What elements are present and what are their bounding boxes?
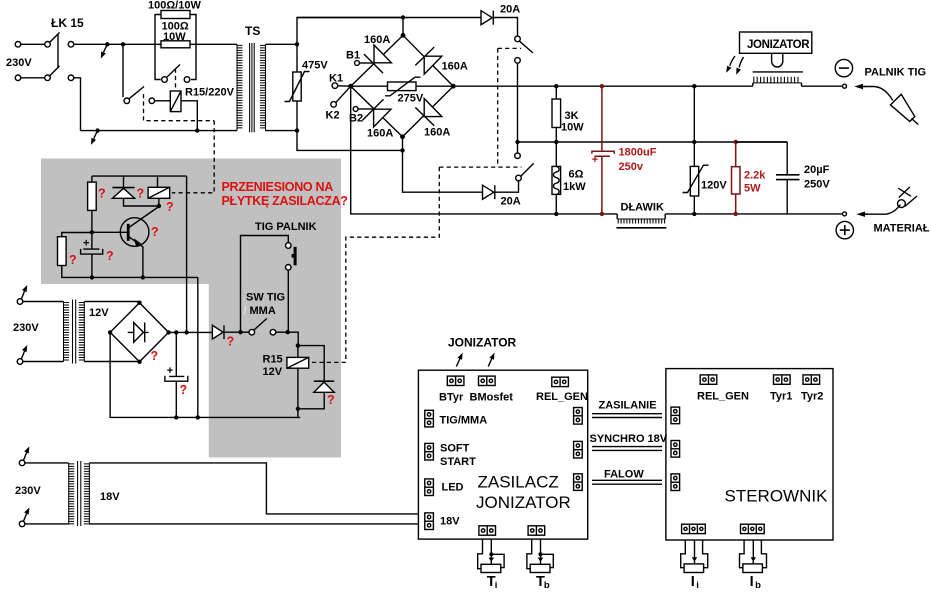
svg-text:160A: 160A — [364, 34, 390, 46]
resistor 100R 10W (in line) — [161, 21, 190, 48]
wire: driver ground rail down to 12V minus — [197, 277, 199, 417]
junction: mid rail / 3K-6R — [554, 140, 558, 144]
diode 160A top-right — [415, 47, 442, 74]
svg-text:SOFT: SOFT — [440, 443, 470, 455]
svg-text:1800uF: 1800uF — [619, 147, 657, 159]
svg-text:?: ? — [180, 383, 188, 397]
inductor DLAWIK (in plus bus) — [616, 202, 666, 228]
svg-text:R15/220V: R15/220V — [185, 87, 235, 99]
capacitor (base filter, electrolytic) — [81, 232, 114, 277]
svg-text:+: + — [167, 365, 173, 377]
svg-text:230V: 230V — [13, 322, 39, 334]
transformer TS secondary winding — [260, 44, 266, 130]
wire segment: resistor right node to TS primary — [190, 43, 237, 45]
svg-text:i: i — [495, 580, 498, 591]
svg-text:SYNCHRO 18V: SYNCHRO 18V — [590, 433, 668, 445]
dashed link: aux switch to relay driver coil — [144, 94, 215, 193]
junction: driver supply tap — [184, 330, 188, 334]
wires: secondary to bridge — [84, 302, 139, 362]
connector BMosfet — [479, 376, 496, 385]
transistor (relay driver) — [92, 207, 159, 278]
terminal: torch output — [843, 84, 847, 88]
svg-text:MMA: MMA — [250, 305, 276, 317]
switch LK15 pole 1 — [45, 33, 74, 48]
svg-text:/: / — [244, 305, 247, 317]
STEROWNIK board outline — [666, 369, 833, 540]
label PRZENIESIONO (red note) — [222, 180, 348, 208]
svg-text:5W: 5W — [744, 183, 761, 195]
node: mains L terminal 3 — [19, 446, 29, 465]
junction: base node — [90, 230, 94, 234]
wire: AC bottom feed (secondary bottom to bridge bottom) — [297, 131, 403, 151]
wire: driver plus rail down to 12V plus — [186, 176, 188, 332]
dashed link: relay R15/12V to 20A switches — [309, 48, 522, 362]
gray area: circuitry moved to power board (upper) — [41, 159, 341, 285]
svg-text:10W: 10W — [561, 122, 584, 134]
svg-text:R15: R15 — [263, 354, 283, 366]
pushbutton TIG PALNIK (parallel) — [241, 221, 317, 332]
junction on top wire — [105, 42, 109, 46]
svg-text:18V: 18V — [440, 516, 460, 528]
svg-text:2.2k: 2.2k — [744, 170, 766, 182]
svg-text:b: b — [544, 580, 550, 591]
junction: switch right node — [286, 330, 290, 334]
svg-text:20A: 20A — [501, 196, 521, 208]
svg-text:I: I — [750, 574, 754, 590]
connector ZASILANIE in — [671, 407, 680, 424]
svg-text:ZASILANIE: ZASILANIE — [599, 400, 657, 412]
svg-text:SW TIG: SW TIG — [246, 292, 285, 304]
connector FALOW in — [671, 474, 680, 491]
svg-text:160A: 160A — [424, 127, 450, 139]
current transformer Ib — [740, 540, 767, 591]
svg-text:START: START — [440, 456, 476, 468]
connector Ii — [682, 524, 706, 533]
svg-text:TS: TS — [245, 24, 260, 38]
wire: N side down to bottom bus — [74, 78, 81, 131]
svg-text:?: ? — [227, 335, 235, 349]
battery/cap 12V — [165, 332, 188, 417]
driver supply rail — [92, 175, 187, 177]
bridge node bottom (AC) — [400, 134, 405, 139]
switch LK15 mechanical link — [57, 35, 59, 68]
svg-text:STEROWNIK: STEROWNIK — [725, 487, 829, 506]
dashed link: bypass switch to relay R15/220V — [175, 69, 177, 92]
svg-text:K1: K1 — [329, 73, 343, 85]
connector LED — [425, 479, 434, 496]
svg-text:Tyr2: Tyr2 — [801, 391, 823, 403]
bridge node right (anode common / minus out) — [451, 84, 456, 89]
wires: mains to 12V transformer — [23, 302, 64, 362]
transformer TS primary winding — [237, 44, 243, 130]
connector Ib — [741, 524, 765, 533]
ZASILACZ JONIZATOR board outline — [418, 370, 587, 539]
svg-text:PŁYTKĘ ZASILACZA?: PŁYTKĘ ZASILACZA? — [222, 194, 348, 208]
spark arrows — [730, 56, 735, 66]
switch SW TIG/MMA — [244, 292, 288, 336]
junction: relay bottom — [296, 407, 300, 411]
junction: battery tap — [174, 330, 178, 334]
svg-text:PALNIK TIG: PALNIK TIG — [865, 67, 927, 79]
junction: secondary top — [295, 42, 299, 46]
current transformer Tb — [527, 539, 553, 591]
svg-text:18V: 18V — [100, 491, 120, 503]
current transformer Ii — [681, 540, 708, 591]
svg-text:?: ? — [166, 200, 174, 214]
node: mains L terminal 2 — [17, 285, 27, 304]
junction: minus bus / 3K — [554, 84, 558, 88]
junction: bridge bottom to AC feed — [400, 148, 404, 152]
svg-text:?: ? — [106, 249, 114, 263]
svg-text:+: + — [592, 154, 598, 166]
relay coil (driver, moved) — [148, 176, 174, 214]
varistor 475V across secondary — [285, 44, 329, 130]
bottom bus (230V N to transformer) — [81, 130, 238, 132]
svg-text:Tyr1: Tyr1 — [770, 391, 792, 403]
junction: plus bus / 120V — [692, 212, 696, 216]
junction+arrow marker on bottom bus — [95, 128, 99, 132]
resistor 3K 10W — [552, 86, 584, 142]
svg-text:1kW: 1kW — [563, 181, 586, 193]
svg-text:10W: 10W — [163, 31, 186, 43]
gray area: circuitry moved to power board (lower) — [209, 284, 341, 458]
svg-text:BMosfet: BMosfet — [470, 392, 514, 404]
connector Ti — [479, 526, 496, 535]
cable SYNCHRO 18V — [590, 433, 668, 450]
junction: battery minus on rail — [174, 415, 178, 419]
mid rail (aux dc node) — [518, 141, 788, 143]
svg-text:250v: 250v — [619, 161, 644, 173]
transformer TS core — [250, 43, 255, 132]
plus symbol (material polarity) — [836, 221, 853, 238]
svg-text:ZASILACZ: ZASILACZ — [478, 473, 559, 492]
connector Tb — [528, 526, 545, 535]
wire: minus bus down to snubber rail — [693, 86, 695, 142]
connector Tyr2 — [803, 375, 820, 384]
resistor (base-emitter) — [58, 233, 198, 278]
cable FALOW — [592, 469, 662, 485]
wire: bridge plus to diode — [169, 331, 213, 333]
bridge rectifier (12V) — [108, 301, 171, 364]
wire: minus bus (bridge right node to torch terminal) — [453, 85, 842, 87]
junction: minus bus to snubber — [692, 84, 696, 88]
wire: 18V top to ZASILACZ — [89, 463, 418, 514]
relay coil R15/220V — [155, 87, 235, 131]
node: mains L terminal — [15, 42, 21, 48]
varistor 275V across bridge output — [351, 77, 454, 104]
TIG torch symbol — [854, 84, 918, 125]
transformer 18V core — [78, 461, 81, 526]
svg-text:JONIZATOR: JONIZATOR — [476, 493, 571, 512]
gate terminal B1 — [346, 50, 374, 66]
svg-text:?: ? — [327, 393, 335, 407]
terminal: material output — [843, 212, 847, 216]
relay coil R15 12V — [263, 346, 309, 409]
resistor (base feed) — [88, 176, 106, 232]
svg-text:JONIZATOR: JONIZATOR — [448, 336, 517, 350]
wire: N terminal to switch — [21, 77, 44, 79]
wires: mains to 18V transformer — [25, 463, 69, 524]
connector REL_GEN (zasilacz) — [552, 377, 569, 386]
junction: secondary bottom — [295, 128, 299, 132]
svg-text:160A: 160A — [442, 61, 468, 73]
arrows to JONIZATOR — [456, 353, 462, 367]
svg-text:ŁK 15: ŁK 15 — [51, 16, 84, 30]
junction: plus bus / 6R — [554, 212, 558, 216]
transformer 12V primary — [64, 302, 70, 362]
wire: top bus tap to bridge top — [402, 18, 404, 36]
varistor 120V — [683, 142, 728, 214]
transformer 18V secondary — [84, 463, 90, 524]
junction: bottom bus at relay branch — [195, 128, 199, 132]
HV coil (in minus bus) — [753, 72, 803, 86]
connector SYNCHRO in — [671, 441, 680, 458]
resistor 2.2k 5W — [732, 140, 767, 216]
svg-text:?: ? — [98, 187, 106, 201]
junction: emitter rail at cap — [90, 275, 94, 279]
switch to bottom 20A diode — [515, 142, 534, 181]
flyback diode (across relay) — [298, 346, 335, 409]
junction: mid rail left end — [515, 140, 519, 144]
svg-text:REL_GEN: REL_GEN — [697, 391, 749, 403]
svg-text:FALOW: FALOW — [604, 469, 644, 481]
minus symbol (torch polarity) — [835, 59, 852, 76]
JONIZATOR box — [740, 32, 812, 53]
svg-text:BTyr: BTyr — [439, 392, 464, 404]
diode (12V feed) — [212, 325, 249, 348]
diode (to relay) — [112, 176, 158, 206]
bridge node top (AC) — [401, 33, 406, 38]
svg-text:TIG/MMA: TIG/MMA — [440, 415, 488, 427]
thyristor 160A bottom-left (gate B2) — [363, 99, 392, 127]
bridge arm wires (diamond) — [351, 35, 454, 137]
svg-text:20A: 20A — [500, 4, 520, 16]
svg-text:475V: 475V — [302, 60, 328, 72]
transformer 12V secondary — [79, 302, 85, 362]
svg-text:?: ? — [151, 225, 159, 239]
svg-text:LED: LED — [442, 482, 464, 494]
junction: switch left node — [238, 330, 242, 334]
svg-text:I: I — [691, 574, 695, 590]
cable ZASILANIE — [592, 400, 662, 418]
junction: relay/diode/collector — [157, 204, 161, 208]
wire: relay bottom to minus rail — [297, 409, 299, 418]
switch after top 20A diode — [493, 18, 533, 64]
wire: top switch down to mid rail (crosses minus bus) — [517, 63, 519, 142]
junction: driver ground on rail — [196, 415, 200, 419]
svg-text:REL_GEN: REL_GEN — [536, 391, 588, 403]
connector REL_GEN (sterownik) — [700, 375, 717, 384]
earth clamp symbol — [856, 187, 917, 217]
connector ZASILANIE out — [574, 408, 583, 425]
svg-text:3K: 3K — [565, 110, 579, 122]
svg-text:6Ω: 6Ω — [569, 169, 584, 181]
spark electrode — [772, 53, 783, 67]
svg-text:100Ω/10W: 100Ω/10W — [148, 0, 201, 12]
svg-text:PRZENIESIONO NA: PRZENIESIONO NA — [222, 180, 334, 194]
wire: L terminal to switch — [21, 43, 44, 45]
wire: plus bus (K node down and right to material terminal) — [351, 86, 843, 214]
node: mains N terminal — [15, 75, 21, 81]
connector SYNCHRO out — [574, 441, 583, 458]
svg-text:275V: 275V — [398, 93, 424, 105]
svg-text:MATERIAŁ: MATERIAŁ — [874, 223, 930, 235]
aux switch fed from top wire — [123, 44, 155, 103]
svg-text:120V: 120V — [701, 180, 727, 192]
junction on top wire (to aux switch) — [121, 42, 125, 46]
connector SOFT START — [425, 443, 434, 460]
svg-text:12V: 12V — [263, 366, 283, 378]
resistor 100R/10W (top) — [148, 0, 201, 44]
wire: bridge bottom node down to AC bottom feed — [402, 137, 404, 151]
arrow marker at top wire junction — [104, 44, 108, 52]
svg-text:TIG PALNIK: TIG PALNIK — [255, 221, 317, 233]
wire: switch to transformer primary top — [74, 43, 161, 45]
wire: TS secondary bottom to varistor node — [266, 130, 298, 132]
gate terminal B2 — [349, 107, 373, 125]
svg-text:12V: 12V — [89, 307, 109, 319]
svg-text:230V: 230V — [6, 57, 32, 69]
connector TIG/MMA — [425, 410, 434, 427]
connector 18V — [425, 513, 434, 530]
svg-text:B1: B1 — [346, 50, 360, 62]
svg-text:DŁAWIK: DŁAWIK — [621, 202, 664, 214]
junction: relay/diode split — [296, 343, 300, 347]
wire: 18V bottom to ZASILACZ — [89, 523, 418, 525]
wire: TS secondary top to varistor node — [266, 43, 298, 45]
transformer 12V core — [73, 300, 76, 364]
svg-text:i: i — [696, 580, 699, 591]
junction: snubber rail — [692, 140, 696, 144]
wire: bridge minus down to 12V minus rail — [110, 332, 300, 417]
thyristor 160A top-left (gate B1) — [364, 45, 392, 73]
svg-text:+: + — [83, 238, 89, 250]
connector Tyr1 — [774, 375, 791, 384]
wire: AC top feed (secondary top to bridge top) — [297, 18, 403, 45]
capacitor 1800uF 250v (electrolytic) — [592, 84, 657, 216]
transformer 18V primary — [69, 463, 75, 524]
node: mains N terminal 2 — [17, 345, 27, 364]
svg-text:250V: 250V — [804, 179, 830, 191]
capacitor 20uF 250V — [736, 142, 831, 214]
svg-text:230V: 230V — [15, 485, 41, 497]
current transformer Ti — [478, 539, 504, 591]
junction: emitter rail at transistor — [141, 275, 145, 279]
connector FALOW out — [574, 474, 583, 491]
svg-text:160A: 160A — [367, 128, 393, 140]
diode 20A (top, from AC top) — [297, 4, 520, 25]
svg-text:?: ? — [137, 187, 145, 201]
svg-text:20µF: 20µF — [804, 164, 830, 176]
resistor 6R 1kW (wirewound) — [552, 142, 586, 214]
node: mains N terminal 3 — [19, 507, 29, 526]
bridge node left (K cathode common) — [348, 84, 353, 89]
diode 20A (bottom, from AC bottom) — [403, 150, 521, 207]
cathode terminal K1 — [329, 73, 351, 89]
switch LK15 pole 2 — [45, 66, 74, 81]
svg-text:?: ? — [69, 253, 77, 267]
svg-text:?: ? — [151, 349, 159, 363]
wire: switched 12V to relay — [288, 332, 299, 345]
bypass switch of 100R resistors — [155, 44, 196, 82]
diode 160A bottom-right — [415, 99, 442, 126]
svg-text:K2: K2 — [326, 110, 340, 122]
connector BTyr — [447, 376, 464, 385]
cathode terminal K2 — [326, 86, 351, 121]
svg-text:b: b — [755, 580, 761, 591]
svg-text:JONIZATOR: JONIZATOR — [747, 39, 810, 51]
